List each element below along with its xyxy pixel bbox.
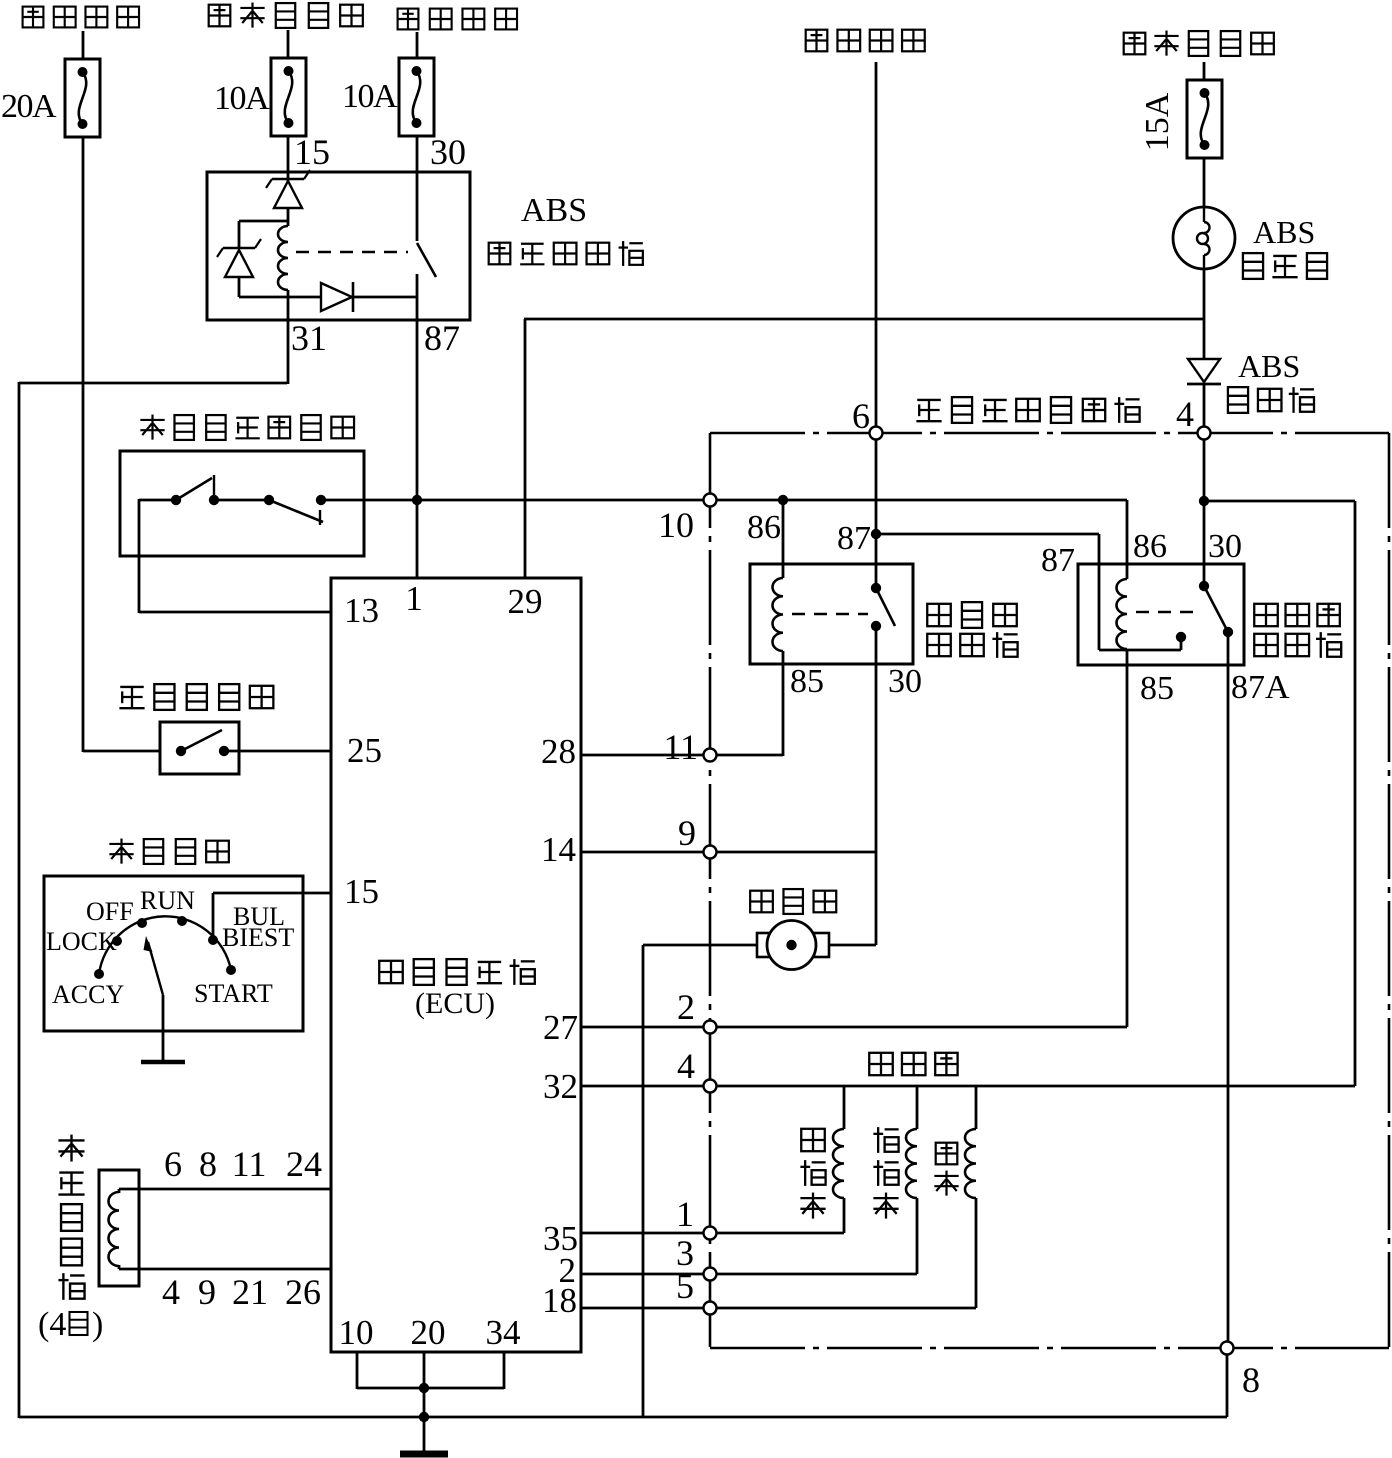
labels 4 9 21 26 <box>162 1272 321 1312</box>
svg-text:15: 15 <box>294 132 330 172</box>
label 制动压力调节器 <box>916 397 1139 423</box>
label terminal 9 <box>678 813 696 853</box>
fuse F1 20A <box>65 59 100 137</box>
contact ACCY <box>52 969 124 1009</box>
relay K3 switch <box>1176 581 1233 642</box>
svg-text:1: 1 <box>676 1194 694 1234</box>
dashed actuator link (K1) <box>296 251 408 253</box>
svg-text:): ) <box>92 1306 103 1343</box>
svg-text:87: 87 <box>424 318 460 358</box>
label (4个) <box>38 1306 103 1343</box>
zener diode VD1 (on pin15 branch) <box>266 170 310 226</box>
svg-text:18: 18 <box>542 1281 577 1320</box>
svg-text:9: 9 <box>678 813 696 853</box>
label terminal 5 <box>676 1266 694 1306</box>
wire F4 to ABS warning lamp <box>1203 159 1206 207</box>
label 87 (K3) <box>1041 542 1075 579</box>
svg-text:13: 13 <box>344 591 379 630</box>
ignition switch S1 box <box>44 876 303 1031</box>
label terminal 10 <box>658 505 694 545</box>
svg-text:(ECU): (ECU) <box>415 987 495 1020</box>
label pin 31 <box>291 318 327 358</box>
svg-text:24: 24 <box>286 1144 322 1184</box>
node junction 86 (pump relay) <box>778 495 788 505</box>
terminal 10 <box>704 494 717 507</box>
svg-text:20: 20 <box>411 1313 446 1352</box>
wire K2-30 down to pump <box>875 626 878 945</box>
ignition switch arc <box>99 916 231 974</box>
wire ECU pin14 to terminal 9 <box>581 851 710 854</box>
label 电子控制器 <box>379 959 535 985</box>
svg-text:86: 86 <box>747 509 781 546</box>
svg-text:6: 6 <box>852 396 870 436</box>
wire BULBIEST to ECU pin 15 <box>213 893 331 938</box>
wire K3-87A down to terminal 8 <box>1227 632 1230 1348</box>
solenoid valve Y3 后轮 <box>934 1086 976 1308</box>
switch S2a <box>171 475 269 505</box>
label terminal 4 (top) <box>1176 394 1194 434</box>
svg-text:10A: 10A <box>214 80 270 117</box>
label 电动泵继电器 <box>927 602 1017 658</box>
ECU U1 box (电子控制器) <box>331 578 581 1352</box>
label terminal 8 <box>1242 1360 1260 1400</box>
wire pump + to relay K2-30 <box>829 944 876 947</box>
zener diode VD2 (left) <box>217 239 261 297</box>
wire coil bottom to pin 31 <box>287 290 290 320</box>
terminal 9 <box>704 846 717 859</box>
label pin 87 (K1) <box>424 318 460 358</box>
svg-text:14: 14 <box>541 830 576 869</box>
label 30 (K2) <box>888 663 922 700</box>
wire K3 coil 85 down to terminal 2 line <box>1126 665 1129 1027</box>
label 电磁阀 (solenoid valves) <box>869 1053 957 1075</box>
wire ECU pin29 up and right to ABS lamp node <box>524 319 1204 578</box>
label ABS 二极管 <box>1228 348 1314 413</box>
ECU pin label 13 <box>344 591 379 630</box>
node: ignition feed label 接点火开关 (right) <box>1124 31 1274 56</box>
label pin 30 (relay K1) <box>430 132 466 172</box>
wire ECU pin18 to terminal 5 <box>581 1307 710 1310</box>
svg-text:86: 86 <box>1133 528 1167 565</box>
wire ignition feed to fuse F4 <box>1203 62 1206 80</box>
wire VD4 to terminal 4 <box>1203 384 1206 433</box>
terminal 4 (left) <box>704 1080 717 1093</box>
svg-text:5: 5 <box>676 1266 694 1306</box>
ECU pin label 32 <box>543 1067 578 1106</box>
wire battery feed down to fuse F3 <box>416 32 419 58</box>
svg-text:87: 87 <box>1041 542 1075 579</box>
svg-text:6: 6 <box>164 1144 182 1184</box>
label 轮速传感器 (vertical) <box>58 1135 84 1300</box>
wire terminal 2 to K3 coil 85 <box>710 1026 1127 1029</box>
pump motor M1 <box>757 921 829 970</box>
label terminal 1 <box>676 1194 694 1234</box>
fuse F4 15A <box>1187 80 1222 158</box>
svg-text:21: 21 <box>232 1272 268 1312</box>
ECU pin label 29 <box>508 582 543 621</box>
node: battery feed label 接蓄电池 (mid) <box>398 9 517 30</box>
relay K2 box (电动泵继电器) <box>750 564 913 664</box>
svg-text:87: 87 <box>837 520 871 557</box>
svg-text:2: 2 <box>677 987 695 1027</box>
label pin 15 (relay K1) <box>294 132 330 172</box>
relay K1 box (ABS protection relay) <box>207 172 470 320</box>
terminal 11 <box>704 749 717 762</box>
switch S2b <box>264 495 326 525</box>
wire battery feed down to fuse F1 <box>82 31 85 59</box>
wire ground pin bus <box>357 1387 504 1390</box>
wire ECU pin32 to terminal 4 <box>581 1085 710 1088</box>
wire ECU pin 20 down <box>423 1352 426 1418</box>
terminal 6 <box>870 427 883 440</box>
label 20A <box>1 88 57 125</box>
svg-text:10: 10 <box>658 505 694 545</box>
label 86 (K3) <box>1133 528 1167 565</box>
svg-text:1: 1 <box>405 579 423 618</box>
fuse F2 10A <box>271 58 306 136</box>
wire 86 down to K2 coil <box>782 500 785 578</box>
label 15A (rotated) <box>1139 92 1176 151</box>
wire battery feed to terminal 6 <box>875 62 878 433</box>
svg-text:34: 34 <box>486 1313 521 1352</box>
wire F3 to relay pin 30 <box>416 136 419 173</box>
node junction pin20 bus <box>419 1383 429 1393</box>
node junction 87 feed <box>871 529 881 539</box>
svg-text:30: 30 <box>888 663 922 700</box>
switch S3 <box>176 730 229 756</box>
node: battery feed label 接蓄电池 (left) <box>23 7 139 28</box>
label 点火开关 <box>109 839 228 864</box>
label ABS 保护继电器 <box>489 192 643 266</box>
wire bottom ground bus <box>19 1416 1227 1419</box>
svg-text:RUN: RUN <box>140 886 195 915</box>
wire terminal 3 to valve Y2 <box>710 1273 917 1276</box>
contact OFF <box>86 897 147 928</box>
svg-text:28: 28 <box>541 732 576 771</box>
relay K1 switch <box>417 172 436 320</box>
svg-text:4: 4 <box>1176 394 1194 434</box>
svg-text:30: 30 <box>430 132 466 172</box>
wire ignition feed down to fuse F2 <box>287 30 290 58</box>
wire K1-87 down to ECU pin 1 <box>416 320 419 578</box>
label 10A (F3) <box>342 78 398 115</box>
svg-text:8: 8 <box>1242 1360 1260 1400</box>
svg-text:OFF: OFF <box>86 897 134 926</box>
wire rotor to ground <box>162 995 165 1061</box>
label ABS 警告灯 <box>1243 214 1327 279</box>
svg-text:26: 26 <box>285 1272 321 1312</box>
wire to ground symbol <box>423 1417 426 1452</box>
wire S2 internal left drop to ECU pin 13 <box>139 499 331 613</box>
wire S3 to ECU pin 25 <box>224 750 331 753</box>
ignition rotor arrow <box>144 936 164 995</box>
ECU pin label 14 <box>541 830 576 869</box>
label 电磁阀继电器 <box>1254 604 1341 658</box>
svg-text:ACCY: ACCY <box>52 980 124 1009</box>
terminal 2 <box>704 1021 717 1034</box>
label terminal 6 <box>852 396 870 436</box>
label 电动泵 (pump) <box>750 889 836 914</box>
svg-text:ABS: ABS <box>521 192 587 229</box>
svg-text:4: 4 <box>162 1272 180 1312</box>
contact RUN <box>140 886 195 926</box>
terminal 5 <box>704 1302 717 1315</box>
svg-text:20A: 20A <box>1 88 57 125</box>
svg-text:(4: (4 <box>38 1306 66 1343</box>
wire VD2 to VD3 <box>239 296 321 299</box>
ground (ignition switch) <box>141 1060 185 1065</box>
wire pin31 to left bus <box>19 320 288 384</box>
dashed actuator link (K2) <box>792 613 868 615</box>
svg-text:15A: 15A <box>1139 92 1176 151</box>
regulator enclosure bottom edge <box>710 1347 1389 1350</box>
label 87 (K2) <box>837 520 871 557</box>
node junction terminal4/relay30 <box>1199 496 1209 506</box>
label 横向加速度开关 <box>140 415 354 440</box>
ECU pin label 2 <box>559 1251 577 1290</box>
node: ignition feed label 接点火开关 (top) <box>209 3 363 28</box>
label 85 (K3) <box>1140 670 1174 707</box>
label terminal 2 <box>677 987 695 1027</box>
wire ECU pin35 to terminal 1 <box>581 1232 710 1235</box>
relay K1 coil <box>278 226 288 290</box>
solenoid valve Y1 右前轮 <box>800 1086 844 1233</box>
terminal 1 <box>704 1227 717 1240</box>
wire terminal 6 down to switch K2 <box>875 440 878 588</box>
ABS warning lamp H1 <box>1173 207 1235 269</box>
svg-text:27: 27 <box>543 1008 578 1047</box>
label 10A (F2) <box>214 80 270 117</box>
label 制动灯开关 <box>119 684 273 710</box>
svg-text:8: 8 <box>199 1144 217 1184</box>
wire terminal 10 line corner down to K3 coil 86 <box>1126 500 1129 579</box>
svg-text:4: 4 <box>677 1046 695 1086</box>
wire terminal 1 to valve Y1 <box>710 1232 844 1235</box>
ECU pin label 20 <box>411 1313 446 1352</box>
wire terminal 8 down to ground bus <box>1226 1348 1229 1417</box>
label terminal 4 (left) <box>677 1046 695 1086</box>
svg-text:10A: 10A <box>342 78 398 115</box>
wire terminal 9 to pump feed <box>710 851 876 854</box>
relay K2 switch <box>871 583 895 631</box>
svg-text:87A: 87A <box>1231 669 1290 706</box>
sensor B1 coil <box>109 1189 119 1269</box>
wire terminal 10 to pump relay coil and solenoid relay coil <box>710 499 1127 502</box>
wire coil top branch to VD2 <box>239 221 288 248</box>
wire F2 to relay pin 15 <box>287 136 290 173</box>
svg-text:85: 85 <box>1140 670 1174 707</box>
wire F1 to brake-light switch (x=83) <box>83 137 161 752</box>
ECU pin label 35 <box>543 1219 578 1258</box>
wire ECU pin27 to terminal 2 <box>581 1026 710 1029</box>
svg-text:15: 15 <box>344 872 379 911</box>
wire ECU pin 34 down <box>503 1352 506 1389</box>
terminal 8 <box>1221 1342 1234 1355</box>
ECU pin label 28 <box>541 732 576 771</box>
svg-text:30: 30 <box>1208 528 1242 565</box>
contact BULBIEST <box>208 902 294 952</box>
wire pump - down to ground bus <box>643 945 757 1417</box>
svg-text:85: 85 <box>790 663 824 700</box>
ECU pin label 18 <box>542 1281 577 1320</box>
ECU pin label 1 <box>405 579 423 618</box>
labels 6 8 11 24 <box>164 1144 322 1184</box>
fuse F3 10A <box>399 58 434 136</box>
regulator enclosure top edge <box>710 432 1389 435</box>
svg-text:BIEST: BIEST <box>222 923 294 952</box>
regulator enclosure left edge <box>709 433 712 1348</box>
label 30 (K3) <box>1208 528 1242 565</box>
wire S2 to regulator terminal 10 <box>321 499 710 502</box>
svg-text:10: 10 <box>339 1313 374 1352</box>
ECU pin label 27 <box>543 1008 578 1047</box>
svg-text:25: 25 <box>347 731 382 770</box>
wire terminal 4 down to K3-30 <box>1203 440 1206 586</box>
solenoid valve Y2 左前轮 <box>873 1086 917 1274</box>
diode VD3 (horizontal) <box>321 282 417 312</box>
svg-text:11: 11 <box>663 727 698 767</box>
ground (ECU) <box>400 1451 448 1458</box>
wire junction right to solenoid feed riser <box>1204 501 1355 1086</box>
wire terminal 5 to valve Y3 <box>710 1307 976 1310</box>
ECU pin label 10 <box>339 1313 374 1352</box>
ABS diode VD4 <box>1187 359 1221 384</box>
label 86 (K2) <box>747 509 781 546</box>
wire sensor bottom to ECU (pins 4 9 21 26) <box>119 1268 331 1271</box>
wire terminal 4 to solenoid valves and riser <box>710 1085 1355 1088</box>
node junction 87/accel-switch <box>412 495 422 505</box>
wheel speed sensor B1 box <box>99 1170 139 1286</box>
svg-text:9: 9 <box>198 1272 216 1312</box>
ECU pin label 15 <box>344 872 379 911</box>
lateral acceleration switch S2 box <box>120 451 364 556</box>
svg-text:32: 32 <box>543 1067 578 1106</box>
node: battery feed label 接蓄电池 (right) <box>806 30 925 52</box>
wire lamp to diode VD4 <box>1203 269 1206 360</box>
wire ECU pin2 to terminal 3 <box>581 1273 710 1276</box>
dashed actuator link (K3) <box>1136 611 1196 613</box>
wire terminal 11 to ECU pin 28 <box>581 754 710 757</box>
ECU pin label 25 <box>347 731 382 770</box>
wire 87 feed to solenoid relay contact <box>876 534 1181 650</box>
svg-text:29: 29 <box>508 582 543 621</box>
contact START <box>194 965 273 1008</box>
label 87A (K3) <box>1231 669 1290 706</box>
svg-text:11: 11 <box>232 1144 267 1184</box>
svg-text:ABS: ABS <box>1253 214 1315 250</box>
svg-text:ABS: ABS <box>1238 348 1300 384</box>
relay K2 coil <box>773 578 784 664</box>
terminal 4 (top) <box>1198 427 1211 440</box>
svg-text:31: 31 <box>291 318 327 358</box>
label terminal 3 <box>676 1233 694 1273</box>
svg-text:LOCK: LOCK <box>46 927 117 956</box>
brake light switch S3 box <box>160 722 239 774</box>
wire left bus down (x=19) <box>18 382 21 1418</box>
label 85 (K2) <box>790 663 824 700</box>
node junction ground bus <box>419 1412 429 1422</box>
wire sensor top to ECU (pins 6 8 11 24) <box>119 1188 331 1191</box>
label (ECU) <box>415 987 495 1020</box>
terminal 3 <box>704 1268 717 1281</box>
relay K3 box (电磁阀继电器) <box>1078 564 1244 665</box>
wire ECU pin 10 down <box>356 1352 359 1389</box>
label terminal 11 <box>663 727 698 767</box>
contact LOCK <box>46 927 122 956</box>
wire K2 coil to terminal 11 <box>710 664 783 756</box>
relay K3 coil <box>1117 579 1128 665</box>
svg-text:START: START <box>194 979 273 1008</box>
ECU pin label 34 <box>486 1313 521 1352</box>
regulator enclosure right edge <box>1388 433 1391 1348</box>
